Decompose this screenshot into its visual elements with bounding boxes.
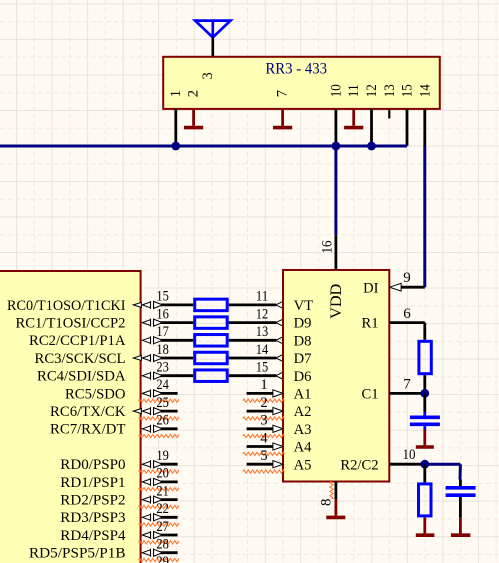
wire R4 to right IC — [229, 357, 277, 360]
svg-text:18: 18 — [156, 342, 169, 358]
no-connect squiggle row 14 — [139, 558, 179, 561]
svg-text:D7: D7 — [294, 351, 312, 367]
no-connect squiggle row 12 — [139, 523, 179, 526]
left IC pin wire row 4 — [142, 372, 193, 380]
svg-text:27: 27 — [156, 519, 169, 535]
svg-text:14: 14 — [417, 84, 433, 98]
svg-text:2: 2 — [186, 90, 202, 97]
svg-text:26: 26 — [156, 413, 169, 429]
svg-text:D9: D9 — [294, 316, 312, 332]
svg-text:D8: D8 — [294, 333, 312, 349]
svg-text:RC5/SDO: RC5/SDO — [65, 386, 126, 402]
svg-text:RD0/PSP0: RD0/PSP0 — [60, 457, 125, 473]
left IC pin wire row 10 — [142, 478, 177, 486]
svg-text:16: 16 — [320, 241, 336, 254]
svg-text:RC0/T1OSO/T1CKI: RC0/T1OSO/T1CKI — [7, 298, 126, 314]
svg-text:3: 3 — [260, 413, 267, 429]
no-connect squiggle row 7 — [139, 435, 179, 438]
right IC input stub pin 1 — [247, 390, 283, 397]
svg-text:2: 2 — [260, 395, 267, 411]
svg-text:4: 4 — [260, 430, 268, 446]
wire junction to R7 — [423, 464, 426, 482]
no-connect squiggle row 10 — [139, 488, 179, 491]
no-connect squiggle row 5 — [139, 399, 179, 402]
svg-text:1: 1 — [260, 377, 267, 393]
wire RR3 pin 1 to bus — [174, 109, 177, 146]
pin 9 DI stub — [390, 283, 425, 291]
svg-text:DI: DI — [363, 280, 379, 296]
pin 8 stub — [334, 482, 337, 500]
resistor R6 vertical — [419, 341, 431, 373]
right IC output arrow pin 12 — [276, 319, 283, 326]
IC U-PIC body (left, partially off-sheet) — [0, 271, 141, 563]
svg-text:7: 7 — [403, 377, 411, 393]
svg-text:10: 10 — [328, 84, 344, 97]
svg-text:VDD: VDD — [328, 284, 345, 319]
no-connect squiggle row 13 — [139, 541, 179, 544]
pin 6 R1 wire — [389, 323, 425, 340]
left IC pin 28 label — [29, 537, 169, 562]
wire bus to VDD pin16 — [334, 146, 337, 235]
right IC input stub pin 2 — [247, 408, 283, 415]
pin 16 stub — [334, 235, 337, 270]
right IC output arrow pin 13 — [276, 337, 283, 344]
antenna E1 — [195, 21, 230, 38]
svg-text:RR3 - 433: RR3 - 433 — [265, 61, 327, 78]
left IC pin 21 label — [60, 483, 169, 508]
no-connect squiggle A5 — [243, 470, 285, 473]
svg-text:11: 11 — [256, 289, 269, 305]
left IC pin wire row 5 — [142, 389, 177, 397]
left IC pin wire row 13 — [142, 531, 177, 539]
svg-text:29: 29 — [156, 554, 169, 563]
left IC pin wire row 6 — [133, 407, 177, 415]
wire bus horizontal — [0, 145, 407, 148]
right IC input stub pin 3 — [247, 425, 283, 432]
no-connect squiggle pin 8 — [330, 482, 333, 500]
ground pin 8 — [326, 499, 345, 517]
resistor R3 (array) — [195, 335, 228, 347]
left IC pin wire row 3 — [133, 354, 193, 362]
svg-text:8: 8 — [319, 499, 335, 507]
svg-text:15: 15 — [156, 289, 169, 305]
capacitor C3 — [410, 412, 440, 430]
svg-text:13: 13 — [382, 84, 398, 97]
svg-text:A1: A1 — [294, 387, 312, 403]
svg-text:1: 1 — [168, 90, 184, 97]
svg-text:25: 25 — [156, 395, 169, 411]
svg-text:13: 13 — [256, 324, 269, 340]
wire R1 to right IC — [229, 303, 277, 306]
module RR3-433 U-RF body — [163, 57, 440, 109]
svg-text:RD3/PSP3: RD3/PSP3 — [60, 510, 125, 526]
wire R5 to right IC — [229, 374, 277, 377]
svg-text:22: 22 — [156, 501, 169, 517]
left IC pin wire row 7 — [142, 425, 177, 433]
svg-text:24: 24 — [156, 377, 169, 393]
left IC pin 15 label — [7, 289, 169, 314]
left IC pin 26 label — [50, 413, 169, 438]
svg-text:A3: A3 — [294, 422, 312, 438]
junction R6/C1 — [420, 389, 429, 398]
wire RR3 pin 12 to bus — [370, 109, 373, 146]
svg-text:R1: R1 — [361, 316, 378, 332]
svg-text:A5: A5 — [294, 457, 312, 473]
junction pin1-bus — [171, 142, 180, 151]
no-connect squiggle A3 — [243, 435, 285, 438]
svg-text:R2/C2: R2/C2 — [340, 457, 378, 473]
left IC pin 29 label — [156, 554, 169, 563]
svg-text:11: 11 — [346, 84, 362, 97]
left IC pin 17 label — [29, 324, 169, 349]
left IC pin 22 label — [60, 501, 169, 526]
svg-text:RC7/RX/DT: RC7/RX/DT — [50, 422, 126, 438]
junction pin10-bus — [332, 142, 341, 151]
pin 10 R2/C2 stub — [389, 463, 425, 466]
resistor R1 (array) — [195, 299, 228, 311]
svg-text:A4: A4 — [294, 440, 313, 456]
svg-text:17: 17 — [156, 324, 169, 340]
svg-text:RC1/T1OSI/CCP2: RC1/T1OSI/CCP2 — [16, 316, 126, 332]
left IC pin 24 label — [65, 377, 169, 402]
svg-text:RC4/SDI/SDA: RC4/SDI/SDA — [37, 369, 126, 385]
svg-text:12: 12 — [364, 84, 380, 97]
svg-text:16: 16 — [156, 306, 169, 322]
no-connect squiggle A2 — [243, 417, 285, 420]
left IC pin wire row 1 — [142, 319, 193, 327]
wire RR3 pin 10 to bus — [334, 109, 337, 146]
left IC pin 20 label — [60, 466, 169, 491]
ground under C3 — [416, 430, 434, 448]
IC U-DEC body — [283, 270, 389, 482]
svg-text:20: 20 — [156, 466, 169, 482]
left IC pin 27 label — [60, 519, 169, 544]
no-connect squiggle A1 — [243, 399, 285, 402]
svg-text:9: 9 — [403, 270, 411, 286]
right IC input stub pin 4 — [247, 443, 283, 450]
ground RR3 pin 7 — [273, 109, 292, 128]
svg-text:23: 23 — [156, 360, 169, 376]
resistor R4 (array) — [195, 352, 228, 364]
left IC pin wire row 2 — [142, 336, 193, 344]
svg-text:RD2/PSP2: RD2/PSP2 — [60, 493, 125, 509]
left IC pin 18 label — [35, 342, 169, 367]
capacitor C4 — [446, 480, 476, 518]
svg-text:10: 10 — [403, 447, 416, 463]
left IC pin wire row 11 — [142, 496, 177, 504]
ground under C4 — [451, 518, 471, 536]
svg-text:15: 15 — [256, 360, 269, 376]
no-connect squiggle row 11 — [139, 505, 179, 508]
wire R3 to right IC — [229, 339, 277, 342]
svg-text:D6: D6 — [294, 369, 312, 385]
right IC output arrow pin 14 — [276, 354, 283, 361]
wire R2 to right IC — [229, 321, 277, 324]
svg-text:28: 28 — [156, 537, 169, 553]
right IC output arrow pin 11 — [276, 301, 283, 308]
right IC output arrow pin 15 — [276, 372, 283, 379]
svg-text:RD5/PSP5/P1B: RD5/PSP5/P1B — [29, 546, 125, 562]
svg-text:RC6/TX/CK: RC6/TX/CK — [50, 404, 126, 420]
svg-text:5: 5 — [260, 448, 267, 464]
no-connect squiggle row 6 — [139, 417, 179, 420]
no-connect squiggle row 9 — [139, 470, 179, 473]
left IC pin 19 label — [60, 448, 169, 473]
stub RR3 pin 13 — [388, 109, 390, 119]
ground under R7 — [416, 517, 435, 535]
ground RR3 pin 2 — [184, 109, 203, 128]
svg-text:12: 12 — [256, 306, 269, 322]
svg-text:14: 14 — [256, 342, 269, 358]
svg-text:VT: VT — [294, 298, 314, 314]
resistor R5 (array) — [195, 370, 228, 382]
left IC pin wire row 0 — [133, 301, 193, 309]
svg-text:RD4/PSP4: RD4/PSP4 — [60, 528, 125, 544]
ground RR3 pin 11 — [344, 109, 363, 128]
wire pin14 to DI net — [423, 146, 426, 287]
svg-text:21: 21 — [156, 483, 169, 499]
svg-text:RC3/SCK/SCL: RC3/SCK/SCL — [35, 351, 126, 367]
left IC pin 16 label — [16, 306, 169, 331]
svg-text:15: 15 — [400, 84, 416, 97]
left IC pin 25 label — [50, 395, 169, 420]
svg-text:A2: A2 — [294, 404, 312, 420]
svg-text:3: 3 — [200, 72, 216, 79]
wire junction to C3 — [423, 393, 426, 412]
wire R6 to C junction — [423, 375, 426, 393]
svg-text:7: 7 — [275, 90, 291, 97]
pin 7 C1 stub — [389, 392, 425, 395]
wire RR3 pin 14 down — [423, 109, 426, 146]
svg-text:RC2/CCP1/P1A: RC2/CCP1/P1A — [29, 333, 126, 349]
left IC pin wire row 12 — [142, 513, 177, 521]
svg-text:6: 6 — [403, 306, 411, 322]
svg-text:RD1/PSP1: RD1/PSP1 — [60, 475, 125, 491]
svg-text:19: 19 — [156, 448, 169, 464]
junction R2C2 — [420, 460, 429, 469]
left IC pin 23 label — [37, 360, 169, 385]
no-connect squiggle A4 — [243, 452, 285, 455]
wire junction to C4 — [425, 464, 461, 479]
wire antenna to RR3 pin 3 — [212, 37, 215, 56]
resistor R2 (array) — [195, 317, 228, 329]
junction pin12-bus — [367, 142, 376, 151]
svg-text:C1: C1 — [361, 387, 378, 403]
right IC input stub pin 5 — [247, 461, 283, 468]
left IC pin wire row 14 — [142, 549, 177, 557]
left IC pin wire row 9 — [142, 460, 177, 468]
wire RR3 pin 15 to bus corner — [406, 109, 409, 146]
resistor R7 vertical — [419, 484, 432, 516]
